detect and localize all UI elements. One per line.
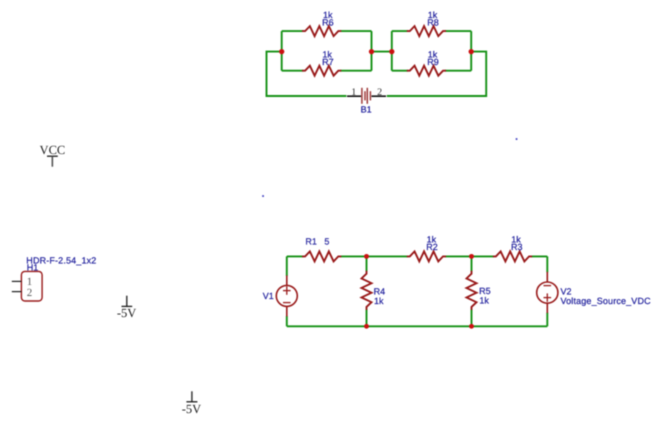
resistor R7: [302, 50, 341, 76]
wire R9 row left: [392, 70, 408, 72]
resistor R3: [493, 235, 532, 262]
node anchor dot upper: [516, 138, 518, 140]
resistor R1 value 5: [302, 237, 341, 262]
svg-text:R3: R3: [511, 242, 523, 252]
wire R6 row left: [282, 30, 304, 32]
svg-text:1: 1: [351, 87, 356, 98]
power symbol -5V upper: [117, 296, 136, 320]
svg-text:-5V: -5V: [182, 402, 201, 416]
node junction dot R5 top: [469, 254, 474, 259]
power symbol -5V lower: [182, 391, 201, 416]
power symbol VCC: [40, 143, 66, 167]
svg-text:R4: R4: [374, 286, 386, 296]
wire V1 stubs: [286, 256, 288, 326]
svg-text:R6: R6: [322, 17, 334, 27]
svg-text:-5V: -5V: [117, 306, 136, 320]
wire R8 row right: [445, 30, 472, 32]
svg-text:R5: R5: [479, 286, 491, 296]
resistor R2: [407, 235, 446, 262]
svg-text:R9: R9: [427, 57, 439, 67]
wire top-right outer loop: [387, 52, 486, 96]
node junction dot left box right: [369, 49, 374, 54]
wire R9 row right: [445, 70, 472, 72]
node anchor dot lower: [262, 195, 264, 197]
wire R7 row right: [340, 70, 372, 72]
wire V2 stubs: [546, 256, 548, 326]
node junction dot right box right: [469, 49, 474, 54]
wire left box right vertical: [371, 31, 373, 71]
resistor R8: [407, 10, 446, 36]
node junction dot left box: [279, 49, 284, 54]
node junction dot R4 bottom: [364, 324, 369, 329]
svg-text:B1: B1: [361, 105, 372, 115]
svg-text:1k: 1k: [479, 296, 489, 306]
connector H1 HDR-F-2.54_1x2: [12, 255, 97, 301]
svg-text:R7: R7: [322, 57, 334, 67]
resistor R6: [302, 10, 341, 36]
wire R5 stubs: [471, 256, 473, 326]
wire left box left vertical: [281, 31, 283, 71]
svg-text:1k: 1k: [374, 296, 384, 306]
svg-text:2: 2: [27, 287, 33, 299]
svg-text:Voltage_Source_VDC: Voltage_Source_VDC: [561, 296, 652, 306]
wire R6 row right: [340, 30, 372, 32]
battery B1: [347, 87, 386, 115]
node junction dot R4 top: [364, 254, 369, 259]
wire R7 row left: [282, 70, 304, 72]
voltage source V1: [263, 275, 298, 316]
wire bottom circuit top rail: [287, 255, 548, 257]
svg-text:VCC: VCC: [40, 143, 66, 157]
wire right box left vertical: [391, 31, 393, 71]
wire R4 stubs: [366, 256, 368, 326]
svg-text:2: 2: [377, 87, 382, 98]
node junction dot R5 bottom: [469, 324, 474, 329]
svg-text:V1: V1: [263, 291, 274, 301]
wire bottom circuit bottom rail: [287, 325, 548, 327]
svg-text:R2: R2: [426, 242, 438, 252]
wire R8 row left: [392, 30, 408, 32]
wire between boxes: [372, 51, 392, 53]
svg-text:R8: R8: [427, 17, 439, 27]
resistor R4: [362, 271, 386, 310]
voltage source V2 Voltage_Source_VDC: [537, 272, 651, 313]
wire right box right vertical: [470, 31, 472, 71]
resistor R5: [467, 271, 491, 310]
resistor R9: [407, 50, 446, 76]
svg-text:R1 5: R1 5: [305, 237, 329, 247]
node junction dot right box left: [389, 49, 394, 54]
wire top-left outer loop: [267, 52, 347, 96]
